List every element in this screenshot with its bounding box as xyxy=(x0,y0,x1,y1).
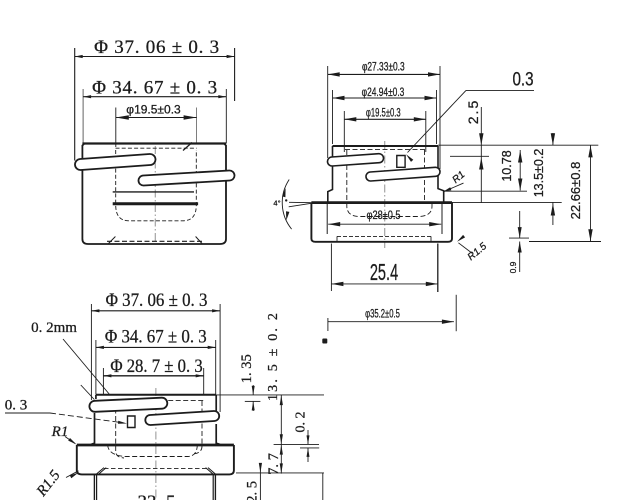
svg-text:Φ 28. 7 ± 0. 3: Φ 28. 7 ± 0. 3 xyxy=(110,355,202,376)
svg-text:φ35.2±0.5: φ35.2±0.5 xyxy=(365,308,400,321)
svg-text:0. 2: 0. 2 xyxy=(293,412,308,433)
svg-text:13. 5 ± 0. 2: 13. 5 ± 0. 2 xyxy=(266,311,281,401)
svg-text:0.3: 0.3 xyxy=(512,68,533,90)
svg-text:33. 5: 33. 5 xyxy=(138,492,176,500)
svg-text:φ19.5±0.3: φ19.5±0.3 xyxy=(126,103,181,117)
svg-text:25.4: 25.4 xyxy=(370,260,398,286)
svg-text:4°: 4° xyxy=(273,199,280,208)
svg-text:Φ 37. 06 ± 0. 3: Φ 37. 06 ± 0. 3 xyxy=(94,37,220,58)
svg-text:Φ 37. 06 ± 0. 3: Φ 37. 06 ± 0. 3 xyxy=(106,289,208,310)
svg-text:13.5±0.2: 13.5±0.2 xyxy=(532,149,546,198)
svg-text:10.78: 10.78 xyxy=(500,150,514,181)
svg-text:0. 2mm: 0. 2mm xyxy=(31,320,77,336)
svg-text:0. 3: 0. 3 xyxy=(5,398,28,414)
svg-text:φ27.33±0.3: φ27.33±0.3 xyxy=(362,61,405,74)
svg-text:φ19.5±0.3: φ19.5±0.3 xyxy=(366,107,401,120)
svg-text:7. 7: 7. 7 xyxy=(266,453,282,475)
svg-text:22. 5: 22. 5 xyxy=(245,481,261,500)
svg-text:Φ 34. 67 ± 0. 3: Φ 34. 67 ± 0. 3 xyxy=(92,77,218,98)
svg-text:0.9: 0.9 xyxy=(508,261,518,273)
svg-text:Φ 34. 67 ± 0. 3: Φ 34. 67 ± 0. 3 xyxy=(105,326,207,347)
svg-text:1. 35: 1. 35 xyxy=(239,354,255,383)
svg-text:R1: R1 xyxy=(51,424,69,440)
svg-text:2.5: 2.5 xyxy=(465,99,481,124)
svg-text:22.66±0.8: 22.66±0.8 xyxy=(568,162,583,220)
